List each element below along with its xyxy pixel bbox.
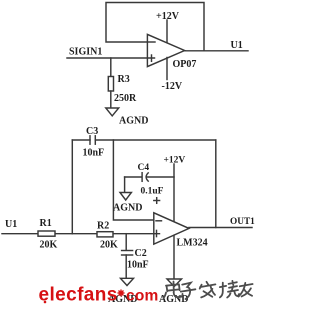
- wire C4 left lead: [125, 176, 141, 178]
- wire LM324 output to OUT1: [189, 227, 252, 229]
- wire SIGIN1 to non-inverting input: [67, 57, 155, 59]
- resistor R1: [38, 231, 55, 236]
- op-amp U2 LM324: [154, 213, 189, 244]
- node plus sign LM324: [156, 230, 158, 236]
- svg-text:C2: C2: [135, 248, 147, 259]
- wire +12V supply pin OP07: [166, 20, 168, 43]
- wire C4 right lead to +12V line: [147, 176, 174, 178]
- wire R3 bottom lead: [110, 91, 112, 108]
- svg-text:+12V: +12V: [164, 156, 186, 166]
- svg-text:AGND: AGND: [119, 116, 148, 127]
- svg-text:20K: 20K: [40, 240, 58, 251]
- ground AGND below C4: [120, 193, 131, 201]
- svg-text:R2: R2: [97, 221, 109, 232]
- ground AGND below LM324: [167, 279, 182, 287]
- node plus polarity mark above LM324: [154, 198, 160, 204]
- op-amp U1 OP07: [147, 34, 184, 66]
- capacitor C2 plates: [122, 251, 133, 256]
- svg-text:+12V: +12V: [156, 11, 180, 22]
- svg-text:R3: R3: [118, 74, 130, 85]
- wire C3 left lead: [72, 139, 90, 141]
- node plus sign OP07: [151, 55, 153, 61]
- capacitor C4 plates: [142, 173, 148, 182]
- wire branch down to LM324 inverting input: [113, 140, 153, 220]
- wire -12V supply pin OP07: [166, 58, 168, 80]
- svg-text:R1: R1: [40, 218, 52, 229]
- svg-text:SIGIN1: SIGIN1: [69, 47, 102, 58]
- resistor R2: [97, 232, 113, 237]
- watermark chinese character 电: [163, 282, 182, 299]
- watermark chinese character 子: [181, 283, 196, 299]
- wire C3 right lead to feedback corner: [95, 139, 216, 141]
- svg-text:U1: U1: [231, 40, 243, 51]
- svg-text:OUT1: OUT1: [230, 217, 255, 227]
- ground AGND below C2: [121, 278, 134, 285]
- wire +12V supply pin LM324: [173, 164, 175, 221]
- svg-text:250R: 250R: [114, 93, 137, 104]
- svg-text:elecfans: elecfans: [39, 285, 118, 306]
- svg-text:C3: C3: [86, 126, 98, 137]
- svg-text:U1: U1: [5, 219, 17, 230]
- svg-text:-12V: -12V: [162, 81, 183, 92]
- wire C2 bottom lead: [125, 255, 127, 278]
- svg-text:com: com: [126, 287, 158, 304]
- svg-text:0.1uF: 0.1uF: [141, 187, 164, 197]
- watermark chinese character 烧: [220, 281, 239, 298]
- wire feedback right vertical to output: [215, 140, 217, 228]
- svg-text:10nF: 10nF: [83, 148, 105, 159]
- svg-text:LM324: LM324: [177, 238, 208, 249]
- capacitor C3 plates: [90, 136, 95, 144]
- wire junction R1-R2 up to C3: [71, 140, 73, 234]
- resistor R3: [108, 77, 113, 92]
- svg-text:10nF: 10nF: [127, 260, 149, 271]
- wire LM324 ground pin: [173, 235, 175, 278]
- wire feedback loop U1 top (output to inverting input): [106, 3, 204, 51]
- watermark chinese character 发: [200, 282, 216, 298]
- wire C4 ground stub: [124, 177, 126, 193]
- wire OP07 output to U1: [185, 50, 248, 52]
- svg-text:OP07: OP07: [173, 59, 197, 70]
- svg-text:C4: C4: [138, 163, 150, 173]
- wire R3 top lead: [110, 58, 112, 77]
- wire inverting input dash inside OP07: [149, 41, 156, 43]
- watermark elecfans.com logo: [39, 285, 159, 306]
- svg-text:20K: 20K: [100, 240, 118, 251]
- wire C2 top lead: [125, 234, 127, 251]
- watermark chinese character 友: [239, 283, 253, 297]
- wire U1 input line to R1: [2, 233, 160, 235]
- svg-text:AGND: AGND: [113, 203, 142, 214]
- ground AGND below R3: [106, 108, 119, 116]
- wire inverting dash inside LM324: [156, 220, 162, 222]
